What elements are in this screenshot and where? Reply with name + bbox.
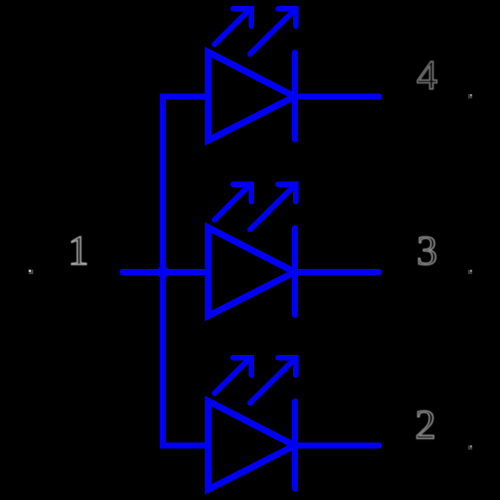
LED D1 (top) triangle xyxy=(208,52,295,141)
wire: vertical bus from node 1 xyxy=(160,97,166,446)
LED D2 cathode bar xyxy=(292,228,298,315)
LED D3 arrow 2 head xyxy=(278,358,296,375)
pin label 1 xyxy=(72,237,87,265)
LED D1 arrow 2 head xyxy=(278,9,296,26)
pin label 4 xyxy=(417,61,437,89)
pin 1 endpoint marker xyxy=(29,270,34,275)
LED D2 arrow 2 shaft xyxy=(250,186,294,230)
LED D1 arrow 1 shaft xyxy=(215,11,249,45)
pin 4 endpoint marker xyxy=(468,94,472,98)
junction: bus to middle LED anode xyxy=(157,266,169,278)
wire: LED D3 cathode to pin 2 xyxy=(295,443,379,449)
LED D3 arrow 2 shaft xyxy=(250,360,294,404)
LED D3 arrow 1 head xyxy=(233,358,251,375)
wire: bus to LED D3 anode xyxy=(160,443,208,449)
LED D1 arrow 2 shaft xyxy=(250,11,294,55)
wire: bus to LED D1 anode xyxy=(160,94,208,100)
LED D2 arrow 1 shaft xyxy=(215,186,249,220)
LED D2 arrow 1 head xyxy=(233,184,251,201)
LED D3 (bottom) triangle xyxy=(208,401,295,490)
pin 3 endpoint marker xyxy=(468,270,472,274)
pin label 3 xyxy=(419,237,436,265)
LED D2 arrow 2 head xyxy=(278,184,296,201)
LED D3 arrow 1 shaft xyxy=(215,360,249,394)
wire: node 1 stub to bus xyxy=(123,269,209,275)
LED D3 cathode bar xyxy=(292,402,298,489)
LED D1 arrow 1 head xyxy=(233,9,251,26)
LED D1 cathode bar xyxy=(292,53,298,140)
pin 2 endpoint marker xyxy=(468,445,472,449)
wire: LED D1 cathode to pin 4 xyxy=(295,94,379,100)
wire: LED D2 cathode to pin 3 xyxy=(295,269,379,275)
pin label 2 xyxy=(417,411,434,439)
LED D2 (middle) triangle xyxy=(208,228,295,317)
